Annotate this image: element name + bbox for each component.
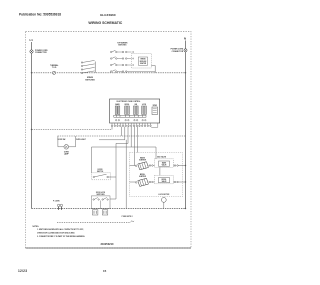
svg-text:SWITCHES: SWITCHES (85, 80, 95, 82)
svg-text:MODULE: MODULE (140, 61, 147, 63)
wire fan-out e to gas valve (92, 127, 157, 173)
svg-text:OVEN LIGHT: OVEN LIGHT (76, 139, 86, 141)
header publication number (19, 12, 61, 16)
header model number (100, 13, 117, 17)
footer page number (103, 269, 107, 273)
wire broil valve to N (173, 181, 186, 183)
door lock connector blocks (92, 210, 107, 215)
svg-text:CONNECTOR: CONNECTOR (172, 51, 184, 53)
svg-text:DOOR SW.: DOOR SW. (58, 139, 67, 141)
EOC terminal strip (111, 123, 151, 127)
svg-text:LOCK: LOCK (142, 104, 147, 106)
oven burner enclosure (130, 153, 183, 197)
svg-text:BROIL: BROIL (162, 179, 167, 181)
svg-text:1. SWITCHES SHOWN WITH ALL CO: 1. SWITCHES SHOWN WITH ALL CONTACTS SET … (37, 228, 84, 231)
svg-text:DOOR LOCK: DOOR LOCK (96, 192, 106, 194)
wire fan-out f to bake igniter (133, 127, 135, 166)
svg-text:GAS VALVE: GAS VALVE (157, 156, 166, 159)
bake valve solenoid L1 (155, 159, 174, 168)
svg-text:BROIL: BROIL (125, 104, 130, 106)
relay base strip (114, 115, 146, 117)
power cord connector P2 (N side) (171, 49, 187, 53)
svg-text:12/23: 12/23 (18, 269, 27, 273)
title WIRING SCHEMATIC (88, 21, 122, 25)
svg-text:N: N (184, 37, 186, 41)
relay K1 bake (115, 103, 120, 121)
svg-text:CONNECTOR: CONNECTOR (35, 52, 47, 54)
svg-text:P SEE NOTE 2: P SEE NOTE 2 (122, 216, 133, 218)
wire fan-out g to broil igniter (137, 127, 139, 153)
svg-text:LOCK MOTOR: LOCK MOTOR (158, 194, 170, 196)
relay K2 broil (125, 104, 130, 121)
wire fan-out c (99, 127, 125, 140)
svg-text:IGN: IGN (134, 104, 137, 106)
broil igniter E2 (135, 174, 148, 187)
spark module U2 (132, 51, 152, 68)
svg-text:L1: L1 (30, 38, 34, 42)
wire N rail (185, 41, 187, 209)
svg-text:SWITCHES: SWITCHES (118, 45, 126, 47)
svg-text:IGNITER: IGNITER (139, 160, 147, 162)
part number (101, 242, 115, 246)
svg-text:WIRING SCHEMATIC: WIRING SCHEMATIC (88, 21, 122, 25)
footer date code (18, 269, 27, 273)
svg-text:ELECTRONIC OVEN CONTROL: ELECTRONIC OVEN CONTROL (117, 101, 141, 103)
svg-text:TOP BURNER: TOP BURNER (117, 43, 128, 45)
wire fan-out d to door lock (110, 127, 128, 199)
relay K4 lock (142, 104, 147, 121)
top burner switch row 1 (110, 50, 131, 53)
notes block (33, 226, 86, 238)
relay K3 ignitor (134, 104, 139, 121)
svg-text:IGNITOR: IGNITOR (140, 63, 147, 65)
svg-text:IGNITER: IGNITER (139, 176, 147, 178)
wire valve interconnect (159, 167, 161, 175)
spark ignition switch stack S1 (81, 60, 95, 81)
svg-text:2. CONNECTOR REF. P IS PART O: 2. CONNECTOR REF. P IS PART OF THE WIRIN… (37, 235, 86, 238)
schematic outer dashed border (26, 32, 192, 249)
svg-text:316253210: 316253210 (101, 242, 115, 246)
thermal cutout TOD (50, 64, 58, 75)
oven door switch S2 (91, 169, 116, 180)
harness connector P3 (53, 200, 63, 210)
node N (184, 37, 186, 41)
wire bottom rail (32, 208, 187, 209)
wire broil row (130, 181, 155, 183)
oven lamp DS1 (64, 145, 70, 156)
svg-text:GLGF396C: GLGF396C (100, 13, 117, 17)
svg-text:BAKE: BAKE (162, 161, 166, 164)
wire jog terminal 13 (151, 123, 158, 127)
wire top rail (31, 72, 186, 73)
transformer T1 (152, 105, 158, 114)
svg-text:T.O.D.: T.O.D. (52, 67, 57, 69)
broil valve solenoid L2 (155, 175, 174, 184)
svg-text:DOOR: DOOR (98, 169, 104, 171)
node L1 (30, 38, 34, 42)
door lock switch assembly S3 (91, 192, 110, 208)
schematic border bottom rule (26, 247, 192, 249)
wire fan-out h to bottom rail (125, 140, 127, 209)
bake igniter E1 (135, 156, 148, 169)
oven lamp circuit (58, 136, 86, 147)
wire neutral run (58, 127, 186, 136)
svg-text:15: 15 (103, 269, 107, 273)
top burner switch row 2 (110, 57, 131, 60)
wire bake row (130, 165, 155, 167)
node P harness reference (57, 216, 134, 222)
door lock motor M1 (158, 194, 170, 209)
svg-text:P. CONN: P. CONN (53, 200, 60, 202)
wire L1 rail (31, 42, 33, 209)
svg-text:LAMP: LAMP (64, 153, 70, 156)
electronic oven control U1 (110, 99, 160, 123)
svg-text:SPARK: SPARK (140, 58, 146, 61)
svg-text:OVEN DOOR CLOSED AND DOOR UNLO: OVEN DOOR CLOSED AND DOOR UNLOCKED. (37, 232, 75, 235)
wire EOC L1 feed (31, 127, 112, 131)
svg-text:BAKE: BAKE (115, 103, 119, 106)
gas valve label (157, 156, 166, 159)
top burner switches label (117, 43, 128, 47)
wire bake valve to N (173, 165, 186, 167)
top burner switch row 4 (110, 70, 155, 73)
power cord connector P1 (L1 side) (30, 50, 48, 54)
svg-text:NOTES:: NOTES: (33, 226, 40, 228)
top burner switch row 3 (110, 63, 131, 66)
wire spark module to rail (151, 66, 155, 73)
svg-text:Publication No: 5995536918: Publication No: 5995536918 (19, 12, 61, 16)
